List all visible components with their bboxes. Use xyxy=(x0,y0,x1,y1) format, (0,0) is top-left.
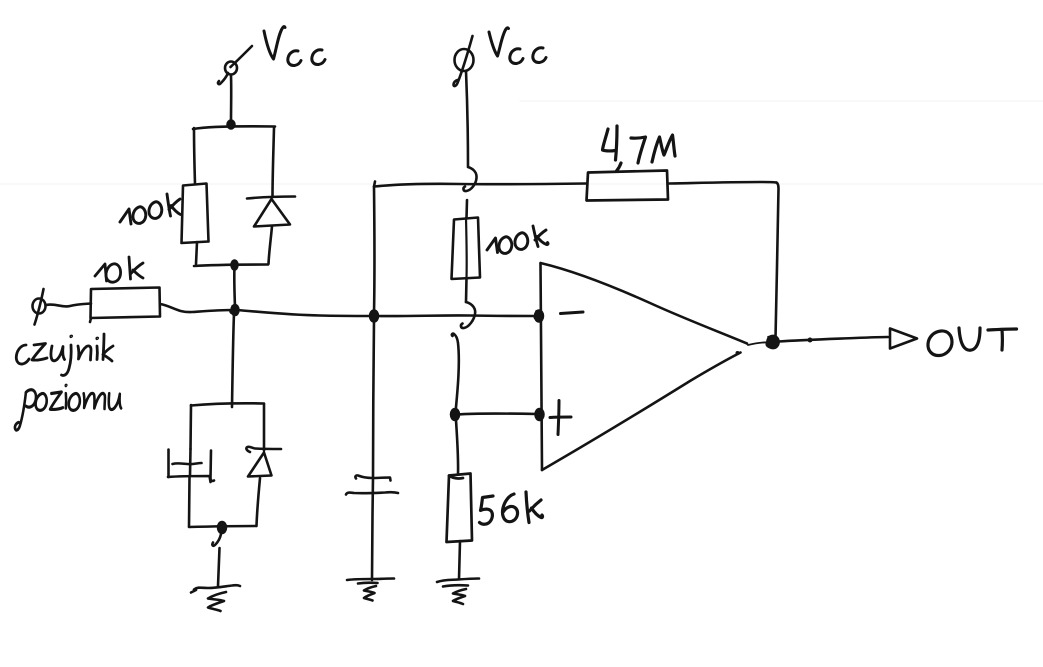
input terminal (czujnik) xyxy=(33,289,46,325)
wire down to plus node xyxy=(452,334,459,413)
resistor 100k (bias) xyxy=(452,218,481,280)
label poziomu xyxy=(15,385,121,430)
wire Vcc2 down xyxy=(466,71,468,166)
power terminal Vcc (middle) xyxy=(454,36,474,86)
label OUT xyxy=(928,328,1017,356)
wire node B down to capacitor C2 xyxy=(373,319,374,478)
node minus input xyxy=(534,310,543,322)
wire lower block to ground xyxy=(212,534,221,586)
zener diode D2 (lower block right) xyxy=(246,447,281,477)
ground (under 56k) xyxy=(437,579,479,605)
diode D1 (upper block, pointing up) xyxy=(247,197,295,227)
wire hop over signal line xyxy=(461,302,475,328)
label Vcc (middle) xyxy=(489,28,546,64)
resistor 56k xyxy=(447,474,473,543)
wire 100k down xyxy=(465,278,468,302)
wire 56k top xyxy=(456,420,458,474)
output terminal triangle xyxy=(890,329,917,349)
lower block frame (parallel cap and zener) xyxy=(189,403,264,527)
node (bottom of upper block) xyxy=(231,260,238,270)
label 4,7M xyxy=(603,126,676,171)
wire hop to 100k xyxy=(465,200,468,218)
wire output to OUT terminal xyxy=(779,337,888,343)
feedback wire (left segment to 4.7M) xyxy=(374,182,587,187)
resistor 4.7M xyxy=(587,171,669,201)
scan artifact lines xyxy=(0,101,1043,184)
wire node A down to lower block xyxy=(232,313,234,407)
power terminal Vcc (left) xyxy=(218,46,252,84)
wire C2 to ground xyxy=(372,478,373,580)
wire input to 10k xyxy=(46,304,91,307)
wire node A to node B xyxy=(237,310,372,316)
op-amp U1 xyxy=(541,263,748,470)
wire 10k to node A xyxy=(160,304,233,312)
wire node A up to upper block xyxy=(233,266,236,307)
label 100k (upper) xyxy=(120,194,181,224)
resistor 100k (upper left) xyxy=(182,184,209,244)
node (bottom of lower block) xyxy=(218,522,227,534)
label Vcc (left) xyxy=(264,27,325,66)
resistor 10k xyxy=(90,288,160,323)
wire plus node to op-amp xyxy=(457,414,536,415)
node (top of 56k / plus wire) xyxy=(451,409,460,421)
label 10k xyxy=(95,257,143,282)
label 56k xyxy=(480,492,543,524)
output node xyxy=(748,336,779,349)
wire node B up to feedback line xyxy=(373,187,376,313)
upper block frame (parallel 100k and diode) xyxy=(193,126,275,266)
node B junction xyxy=(370,310,379,322)
capacitor C2 xyxy=(346,475,398,494)
node A junction xyxy=(230,305,239,316)
node plus input xyxy=(535,409,544,421)
wire signal line node B to minus input xyxy=(376,314,535,317)
label 100k (bias) xyxy=(487,226,548,253)
wire 56k to ground xyxy=(459,541,460,579)
wire hop over feedback line xyxy=(463,167,476,191)
feedback wire (right segment and drop to output) xyxy=(668,182,779,338)
node (top of upper block) xyxy=(227,120,235,129)
ground (middle) xyxy=(347,579,394,601)
label czujnik xyxy=(16,334,113,375)
ground (left) xyxy=(191,585,240,611)
wire Vcc1 down to block xyxy=(230,76,233,121)
capacitor C1 (lower block left, hand symbol) xyxy=(168,450,214,483)
